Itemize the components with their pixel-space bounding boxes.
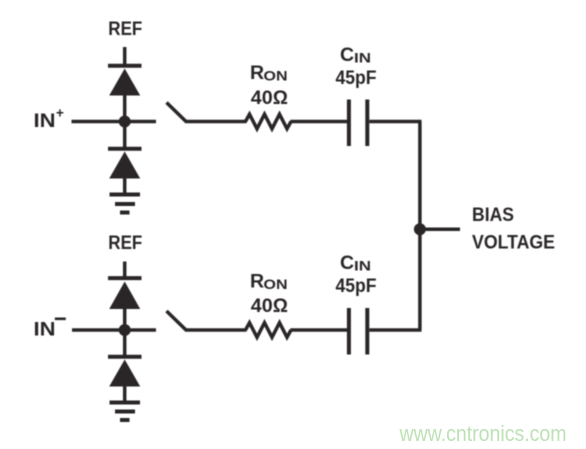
svg-text:C: C xyxy=(340,44,354,66)
diode D2 cathode bar xyxy=(108,147,142,151)
diode D3 (clamp to REF, lower) xyxy=(109,282,140,310)
wire diode column (lower) xyxy=(123,309,127,357)
ground (upper) xyxy=(110,193,141,197)
svg-text:ON: ON xyxy=(264,69,288,84)
wire to ground (upper) xyxy=(123,178,127,194)
svg-text:C: C xyxy=(340,252,354,274)
node BIAS xyxy=(414,223,426,235)
svg-text:REF: REF xyxy=(108,232,142,254)
diode D2 (clamp to GND, upper) xyxy=(109,152,140,179)
switch S1 lever (upper) xyxy=(167,103,187,122)
svg-text:IN: IN xyxy=(34,319,56,341)
wire switch to resistor (lower) xyxy=(185,328,247,332)
ground (lower) xyxy=(110,401,141,405)
resistor RON (lower) xyxy=(246,323,292,338)
svg-text:40Ω: 40Ω xyxy=(251,295,288,317)
svg-text:VOLTAGE: VOLTAGE xyxy=(472,232,555,254)
svg-text:IN: IN xyxy=(354,259,371,274)
capacitor CIN (lower) xyxy=(347,308,351,355)
wire BIAS stub xyxy=(420,228,460,232)
wire right bus xyxy=(418,122,422,331)
svg-text:R: R xyxy=(250,270,264,292)
diode D1 cathode bar xyxy=(108,64,142,68)
diode D3 cathode bar xyxy=(108,276,142,280)
svg-text:R: R xyxy=(250,62,264,84)
resistor RON (upper) xyxy=(246,114,292,129)
diode D1 (clamp to REF, upper) xyxy=(109,69,140,96)
svg-text:45pF: 45pF xyxy=(336,275,377,297)
diode D4 (clamp to GND, lower) xyxy=(109,360,140,387)
wire cap to bus (lower) xyxy=(369,328,421,332)
diode D4 cathode bar xyxy=(108,355,142,359)
svg-text:IN: IN xyxy=(354,51,371,66)
wire cap to bus (upper) xyxy=(369,120,421,124)
switch S2 lever (lower) xyxy=(167,311,187,330)
svg-text:www.cntronics.com: www.cntronics.com xyxy=(399,421,567,446)
wire resistor to cap (lower) xyxy=(290,328,347,332)
svg-text:+: + xyxy=(56,105,64,120)
svg-text:ON: ON xyxy=(264,277,288,292)
svg-text:40Ω: 40Ω xyxy=(251,87,288,109)
svg-text:BIAS: BIAS xyxy=(472,204,514,226)
wire to ground (lower) xyxy=(123,386,127,402)
wire REF stub (lower) xyxy=(123,262,127,279)
wire diode column (upper) xyxy=(123,95,127,149)
svg-text:REF: REF xyxy=(108,18,142,40)
wire REF stub (upper) xyxy=(123,47,127,66)
svg-text:IN: IN xyxy=(34,110,56,132)
wire IN+ to switch xyxy=(72,120,157,124)
node IN- junction xyxy=(119,324,131,336)
capacitor CIN (upper) xyxy=(347,100,351,147)
wire IN- to switch xyxy=(72,328,156,332)
wire switch to resistor (upper) xyxy=(185,120,247,124)
node IN+ junction xyxy=(119,116,131,128)
svg-text:45pF: 45pF xyxy=(336,67,377,89)
wire resistor to cap (upper) xyxy=(290,120,347,124)
